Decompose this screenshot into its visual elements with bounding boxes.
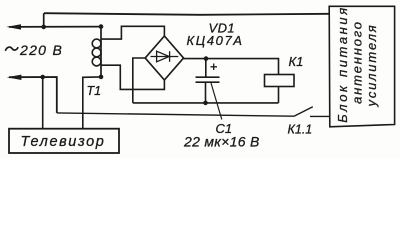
- relay K1 coil box: [265, 75, 295, 87]
- label ~220 V: [5, 47, 18, 51]
- transformer T1 primary straight conductor: [100, 27, 102, 77]
- svg-text:антенного: антенного: [350, 20, 365, 104]
- transformer T1 winding loops: [92, 39, 101, 66]
- block power supply of antenna amplifier box: [329, 6, 394, 127]
- plug arrowhead lower: [7, 75, 22, 80]
- svg-text:Т1: Т1: [87, 84, 102, 98]
- wire bridge plus output rail to relay: [184, 59, 279, 75]
- diode symbol inside VD1: [151, 51, 179, 62]
- node junction dot lower mains: [40, 75, 45, 80]
- plug arrowhead upper: [6, 24, 21, 29]
- wire relay bottom lead to dc rail: [278, 87, 280, 103]
- svg-text:22 мк×16 В: 22 мк×16 В: [183, 134, 260, 150]
- bridge rectifier VD1 diamond: [145, 36, 183, 80]
- wire contact K1.1 fixed side into power-supply box: [310, 115, 329, 117]
- svg-text:К1.1: К1.1: [288, 123, 313, 137]
- leader line from C1 to its label: [211, 83, 222, 120]
- wire bridge minus output to bottom dc rail: [133, 58, 145, 103]
- capacitor C1 plates: [196, 77, 220, 82]
- wire branch down from top rail to upper mains wire: [43, 13, 45, 27]
- wire bottom dc rail: [133, 102, 279, 104]
- node junction dot C1 top: [204, 56, 209, 61]
- svg-text:К1: К1: [289, 54, 304, 69]
- svg-text:220 В: 220 В: [19, 42, 63, 58]
- wire top rail from mains branch to power-supply box: [44, 13, 329, 15]
- svg-text:усилителя: усилителя: [364, 24, 379, 108]
- node junction dot T1 primary bottom: [99, 75, 104, 80]
- node junction dot upper mains / top rail: [41, 25, 46, 30]
- node junction dot C1 bottom: [203, 101, 208, 106]
- wire lower mains lead with plug arrow: [9, 77, 57, 113]
- wire T1 secondary bottom to bridge AC bottom: [101, 65, 164, 89]
- svg-text:Блок питания: Блок питания: [335, 5, 350, 123]
- wire TV lead left: [42, 77, 44, 129]
- node junction dot T1 primary top: [99, 24, 104, 29]
- capacitor C1 leads: [205, 59, 207, 103]
- svg-text:Телевизор: Телевизор: [21, 134, 106, 150]
- wire T1 secondary top to bridge AC top: [101, 26, 164, 39]
- capacitor C1 plus sign: [211, 64, 218, 71]
- wire feed to contact K1.1: [57, 113, 294, 116]
- wire upper mains lead with plug arrow: [9, 26, 101, 28]
- contact K1.1 blade: [294, 107, 313, 117]
- svg-text:КЦ407А: КЦ407А: [187, 33, 244, 48]
- block Телевизор box: [9, 129, 119, 153]
- wire TV lead right from T1 primary bottom: [83, 77, 101, 129]
